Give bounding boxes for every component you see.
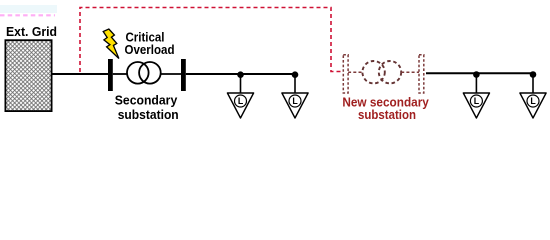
svg-text:Overload: Overload (125, 42, 175, 57)
svg-text:Ext. Grid: Ext. Grid (6, 24, 57, 39)
node load L2 (292, 71, 299, 78)
wire grid to substation (52, 73, 108, 75)
wire drop to load L1 (240, 75, 242, 93)
wire drop to load L2 (294, 75, 296, 93)
busbar left of transformer T1 (108, 59, 113, 91)
transformer T1 primary winding (127, 62, 149, 84)
magenta dashed line (cropped artifact) (0, 14, 55, 16)
transformer T2 primary winding (dashed) (362, 61, 384, 83)
red dashed overload loop (80, 8, 341, 73)
load L2 triangle (282, 93, 308, 118)
load L1 triangle (227, 93, 253, 118)
load L3 circle (470, 95, 482, 107)
svg-text:L: L (474, 96, 480, 106)
load L4 triangle (520, 93, 546, 118)
node load L3 (473, 71, 480, 78)
svg-text:substation: substation (118, 107, 179, 122)
load L1 circle (235, 95, 247, 107)
wire T1 to right busbar (161, 73, 181, 75)
load L4 circle (527, 95, 539, 107)
new substation dashed busbar left (343, 55, 348, 93)
svg-text:Secondary: Secondary (115, 92, 178, 107)
transformer T2 secondary winding (dashed) (379, 61, 401, 83)
transformer T1 secondary winding (139, 62, 161, 84)
node load L1 (237, 71, 244, 78)
wire drop to load L4 (532, 75, 534, 94)
svg-text:substation: substation (358, 107, 416, 122)
svg-text:L: L (530, 96, 536, 106)
feeder wire left bus (186, 73, 296, 75)
load L3 triangle (463, 93, 489, 118)
load L2 circle (289, 95, 301, 107)
wire drop to load L3 (475, 75, 477, 94)
wire busbar to T1 (113, 73, 128, 75)
external grid box (5, 40, 51, 111)
highlight band (cropped artifact top-left) (0, 5, 57, 13)
feeder wire right bus (426, 72, 533, 74)
busbar right of transformer T1 (181, 59, 186, 91)
node load L4 (530, 71, 537, 78)
svg-text:L: L (238, 96, 244, 106)
svg-text:L: L (292, 96, 298, 106)
new substation dashed busbar right (419, 55, 424, 93)
dashed wire T2 to right dashed busbar (401, 71, 419, 73)
dashed wire to T2 (348, 71, 362, 73)
lightning bolt (103, 29, 119, 59)
